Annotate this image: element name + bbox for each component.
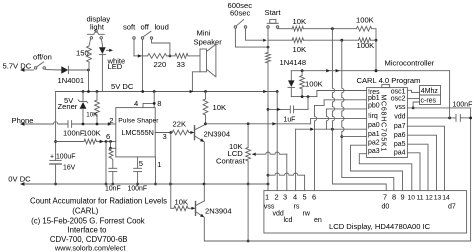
svg-text:vdd: vdd [273,211,284,218]
svg-text:loud: loud [155,23,169,32]
svg-text:LCD Display, HD44780A00 IC: LCD Display, HD44780A00 IC [329,222,431,231]
svg-text:pb1: pb1 [368,95,380,102]
svg-text:10K: 10K [213,103,227,112]
svg-text:www.solorb.com/elect: www.solorb.com/elect [54,243,126,252]
svg-text:6: 6 [312,193,316,202]
svg-text:1uF: 1uF [284,117,296,124]
svg-text:9: 9 [400,193,404,202]
svg-text:rw: rw [303,211,311,218]
svg-text:soft: soft [123,23,136,32]
svg-text:off/on: off/on [33,53,52,62]
svg-text:pa3: pa3 [368,148,380,155]
svg-text:16V: 16V [63,164,76,171]
svg-text:1N4001: 1N4001 [58,76,85,85]
svg-text:100K: 100K [357,41,375,50]
svg-text:osc1: osc1 [391,89,406,96]
svg-text:Contrast: Contrast [216,157,246,166]
svg-text:100K: 100K [356,15,374,24]
svg-text:pa5: pa5 [394,141,406,148]
svg-text:vss: vss [395,104,406,111]
svg-text:10: 10 [408,195,416,202]
svg-text:22K: 22K [173,119,187,128]
svg-text:d7: d7 [448,204,456,211]
svg-text:5: 5 [302,193,306,202]
svg-text:6: 6 [106,132,110,141]
svg-text:220: 220 [154,60,167,69]
svg-text:c-res: c-res [421,97,437,104]
svg-text:pa0: pa0 [368,122,380,129]
svg-text:4Mhz: 4Mhz [421,88,439,95]
svg-text:2N3904: 2N3904 [204,129,231,138]
svg-text:Start: Start [265,8,282,17]
svg-text:3: 3 [163,132,167,141]
svg-text:10K: 10K [86,111,98,118]
svg-text:Interface to: Interface to [67,226,107,235]
svg-text:4: 4 [293,193,297,202]
svg-text:8: 8 [157,99,161,108]
svg-text:100K: 100K [83,129,101,138]
svg-text:Speaker: Speaker [194,38,223,47]
svg-text:5V DC: 5V DC [111,82,134,91]
svg-text:4: 4 [134,99,138,108]
svg-text:(CARL): (CARL) [72,206,98,215]
svg-text:14: 14 [442,195,450,202]
svg-text:1: 1 [157,160,161,169]
svg-text:pa7: pa7 [394,123,406,130]
svg-text:10K: 10K [293,45,307,54]
svg-text:!irq: !irq [368,113,378,120]
svg-text:33: 33 [177,60,185,69]
svg-text:Pulse Shaper: Pulse Shaper [118,118,159,125]
svg-text:LED: LED [108,62,123,71]
svg-text:(c) 15-Feb-2005 G. Forrest Co: (c) 15-Feb-2005 G. Forrest Cook [31,217,145,226]
svg-text:100nF: 100nF [63,129,85,138]
svg-text:osc2: osc2 [391,96,406,103]
svg-text:8: 8 [392,193,396,202]
svg-text:Microcontroller: Microcontroller [385,59,435,68]
svg-text:10K: 10K [293,17,307,26]
svg-text:1N4148: 1N4148 [280,58,307,67]
svg-text:LMC555N: LMC555N [122,128,154,137]
svg-text:pa4: pa4 [394,149,406,156]
svg-text:0V DC: 0V DC [8,174,31,183]
svg-text:pa1: pa1 [368,131,380,138]
svg-text:vdd: vdd [394,113,405,120]
svg-text:100nF: 100nF [128,186,148,193]
svg-text:d0: d0 [382,204,390,211]
svg-text:pa6: pa6 [394,132,406,139]
svg-text:CARL 4.0 Program: CARL 4.0 Program [357,76,421,85]
svg-text:2: 2 [274,193,278,202]
svg-text:+ 100uF: + 100uF [50,154,75,161]
svg-text:lcd: lcd [284,217,293,224]
svg-text:13: 13 [434,195,442,202]
svg-text:off: off [141,23,150,32]
svg-text:Count Accumulator for Radiatio: Count Accumulator for Radiation Levels [30,196,167,205]
svg-text:rs: rs [294,204,300,211]
svg-text:10nF: 10nF [105,186,121,193]
svg-text:10K: 10K [175,198,189,207]
svg-text:12: 12 [425,195,433,202]
svg-text:vss: vss [264,204,275,211]
svg-text:Zener: Zener [58,102,78,111]
svg-text:5.7V DC: 5.7V DC [3,61,32,70]
svg-text:7: 7 [383,193,387,202]
svg-text:1: 1 [265,193,269,202]
svg-text:11: 11 [416,195,423,202]
svg-text:en: en [314,217,322,224]
svg-text:100nF: 100nF [453,102,473,109]
svg-text:Mini: Mini [197,29,211,38]
svg-text:60sec: 60sec [230,8,250,17]
svg-text:3: 3 [283,193,287,202]
svg-text:2N3904: 2N3904 [205,207,232,216]
svg-text:pb0: pb0 [368,103,380,110]
svg-text:MC68HC705K1: MC68HC705K1 [380,94,387,152]
svg-text:pa2: pa2 [368,139,380,146]
svg-text:5: 5 [139,159,143,168]
svg-text:100K: 100K [305,79,323,88]
svg-text:2: 2 [109,116,113,125]
